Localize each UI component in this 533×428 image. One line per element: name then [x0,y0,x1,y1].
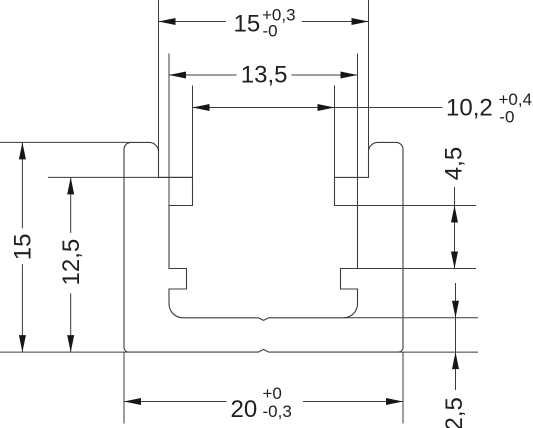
dimension line 12.5 upper segment [70,177,72,233]
extension line bottom left (15 and 12.5) [0,351,129,353]
svg-text:2,5: 2,5 [441,397,468,428]
dimension line 10.2 [193,107,443,109]
extension line overhang right (10.2) [334,86,336,178]
dimension line 2.5 [455,283,457,390]
dimension line 15 top left segment [159,21,226,23]
svg-text:-0: -0 [499,107,514,126]
profile outline [124,142,403,352]
arrow 10.2 left [193,104,210,111]
svg-text:-0,3: -0,3 [263,402,292,421]
svg-text:20: 20 [231,396,258,423]
arrow 13.5 right [341,72,358,79]
dimension line 15 top right segment [302,21,369,23]
arrow 12.5 top [67,177,74,194]
svg-text:-0: -0 [263,22,278,41]
arrow 4.5 bottom [451,252,458,269]
extension line outer left (20) [123,352,125,423]
svg-text:12,5: 12,5 [58,239,85,286]
arrow 2.5 top (outside pointing down) [452,301,459,318]
extension line inner wall right (13.5) [357,54,359,206]
extension line rib top right (4.5 bottom) [358,268,477,270]
extension line bottom right (2.5 and 20) [399,351,479,353]
extension line top of profile (15 height, left) [0,141,131,143]
svg-text:4,5: 4,5 [441,147,468,180]
arrow 2.5 bottom (outside pointing up) [452,352,459,369]
svg-text:10,2: 10,2 [446,94,493,121]
dimension line 15 left upper segment [21,142,23,228]
arrow 10.2 right [318,104,335,111]
extension line overhang left (10.2) [192,86,194,178]
extension line inner wall left (13.5) [168,54,170,206]
dimension line 20 right segment [303,401,403,403]
extension line overhang bottom right (4.5 top) [358,205,477,207]
dimension line 13.5 left segment [169,74,237,76]
dimension line 13.5 right segment [292,74,358,76]
dimension line 4.5 [454,187,456,269]
extension line outer right (20) [402,352,404,423]
svg-text:+0: +0 [263,384,282,403]
arrow 15 top right [352,18,369,25]
extension line floor right (2.5 top) [344,317,479,319]
extension line shoulder (12.5 height, left) [48,176,193,178]
dimension line 15 left lower segment [21,264,23,352]
arrow 15 top left [159,18,176,25]
arrow 20 right [386,398,403,405]
arrow 13.5 left [169,72,186,79]
svg-text:13,5: 13,5 [241,62,288,89]
extension line slot left (15 width) [158,0,160,155]
svg-text:15: 15 [234,11,261,38]
dimension line 20 left segment [124,401,227,403]
extension line slot right (15 width) [368,0,370,155]
arrow 20 left [124,398,141,405]
arrow 15 left bottom [19,335,26,352]
dimension line 12.5 lower segment [70,293,72,352]
svg-text:+0,4: +0,4 [499,90,533,109]
arrow 4.5 top [451,206,458,223]
svg-text:15: 15 [10,233,37,260]
arrow 12.5 bottom [67,335,74,352]
arrow 15 left top [19,142,26,159]
